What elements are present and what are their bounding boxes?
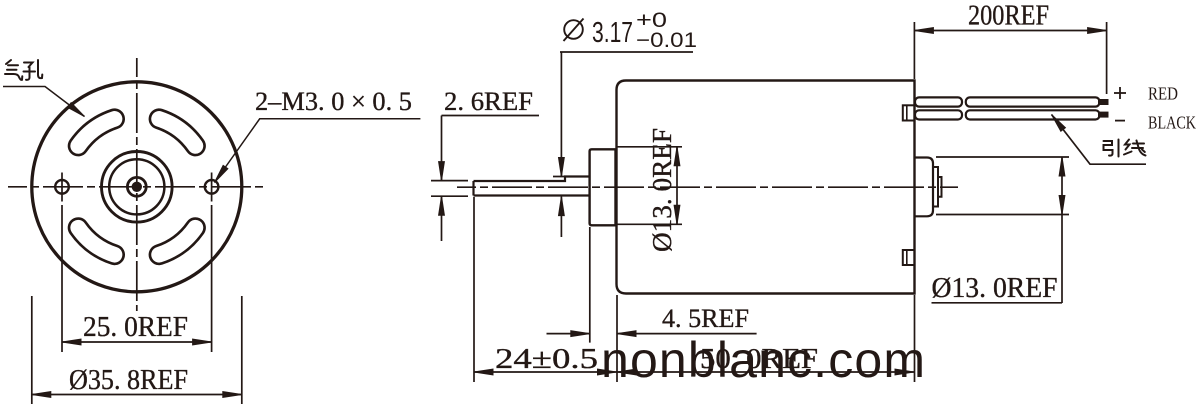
svg-text:200REF: 200REF (968, 1, 1049, 32)
svg-text:2–M3. 0 × 0. 5: 2–M3. 0 × 0. 5 (255, 86, 412, 116)
svg-text:−0.01: −0.01 (636, 29, 697, 52)
svg-text:Ø35. 8REF: Ø35. 8REF (69, 365, 188, 396)
svg-text:24±0.5: 24±0.5 (495, 344, 598, 375)
svg-text:2. 6REF: 2. 6REF (444, 86, 533, 116)
svg-text:BLACK: BLACK (1148, 113, 1196, 133)
svg-text:Ø13. 0REF: Ø13. 0REF (647, 128, 677, 252)
svg-text:Ø13. 0REF: Ø13. 0REF (932, 273, 1058, 304)
svg-text:RED: RED (1148, 84, 1178, 104)
svg-text:25. 0REF: 25. 0REF (83, 312, 188, 343)
svg-text:3.17: 3.17 (592, 17, 633, 49)
svg-text:4. 5REF: 4. 5REF (662, 303, 749, 333)
svg-text:nonblanc.com: nonblanc.com (601, 332, 925, 388)
